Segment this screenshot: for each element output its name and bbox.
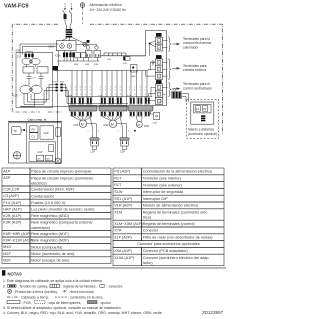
svg-text:M: M	[138, 123, 141, 127]
wire power line L	[64, 3, 66, 8]
legend row Z1F (A2P)	[113, 234, 142, 241]
fuse on L	[64, 14, 67, 19]
svg-text:entrada externa: entrada externa	[183, 68, 206, 72]
wires connector pair to right bus	[63, 85, 69, 97]
connectors M2F	[101, 98, 106, 104]
filter blocks	[27, 65, 36, 67]
svg-text:3: 3	[105, 90, 106, 92]
svg-text:K3R (A1P): K3R (A1P)	[3, 221, 22, 225]
svg-text:SS1: SS1	[107, 59, 112, 61]
relay supply wire	[76, 45, 97, 46]
bus to remote connector	[67, 96, 128, 105]
earth wire slant	[72, 38, 83, 43]
svg-text:Relé magnético (M2F): Relé magnético (M2F)	[31, 239, 69, 243]
svg-text:C1R,C2R: C1R,C2R	[3, 188, 20, 192]
svg-text:X1M~X3M (A1P): X1M~X3M (A1P)	[114, 222, 143, 226]
service pin	[152, 61, 154, 63]
svg-text:1: 1	[70, 87, 71, 89]
terminal L	[60, 44, 65, 49]
svg-text:PS: PS	[32, 129, 36, 132]
svg-text:2: 2	[75, 87, 76, 89]
svg-text:A2P: A2P	[44, 131, 49, 135]
svg-text:HAP: HAP	[131, 75, 136, 78]
svg-text:: opción: : opción	[99, 301, 111, 305]
svg-text:5: 5	[120, 94, 121, 96]
PCB A1P rail 1	[57, 60, 100, 62]
legend row SS1 (A1P)	[113, 195, 142, 202]
svg-text:S1W: S1W	[114, 190, 123, 194]
legend row A1P	[2, 168, 30, 175]
svg-text:1: 1	[88, 131, 89, 133]
svg-text:3: 3	[110, 87, 111, 89]
svg-text:1N~ 220-240 V 50/60 Hz: 1N~ 220-240 V 50/60 Hz	[90, 8, 127, 12]
cable bushing	[66, 26, 71, 29]
brace group 1	[168, 37, 171, 52]
connectors M1D	[130, 98, 135, 104]
wires X1M left down	[56, 44, 59, 66]
legend row M2F	[2, 257, 30, 264]
svg-text:Relé magnético (M1D): Relé magnético (M1D)	[31, 214, 70, 218]
svg-text:2: 2	[134, 87, 135, 89]
svg-text:Conector (suministro eléctrico: Conector (suministro eléctrico del adap-	[143, 256, 211, 260]
legend row K9R~K11R (A1P)	[2, 237, 30, 244]
svg-text:3: 3	[80, 94, 81, 96]
svg-text:(Accesorio opcional): (Accesorio opcional)	[188, 132, 217, 136]
svg-text:Condensador: Condensador	[31, 194, 55, 198]
svg-text:Relé magnético (M1F): Relé magnético (M1F)	[31, 232, 69, 236]
svg-text:eléctrico): eléctrico)	[31, 181, 47, 185]
legend row R2T	[113, 182, 142, 189]
terminal N	[67, 44, 72, 49]
svg-text:trico): trico)	[143, 216, 152, 220]
transformer ovals	[20, 85, 31, 94]
terminal strip X3M tag	[156, 55, 162, 59]
svg-text:2M: 2M	[37, 159, 40, 161]
svg-text:X7A: X7A	[98, 95, 102, 98]
svg-text:3: 3	[75, 90, 76, 92]
connector bar M1D	[128, 106, 153, 112]
svg-text:K2R (A1P): K2R (A1P)	[3, 214, 22, 218]
svg-text:Mando a distancia: Mando a distancia	[188, 128, 214, 132]
svg-text:: conector,: : conector,	[107, 285, 123, 289]
motor M1D bell wires	[137, 116, 143, 122]
unit border dash-dot right	[90, 24, 223, 135]
switch blade N	[69, 10, 71, 14]
PCB outline right section	[122, 31, 166, 106]
legend row K6R~K8R (A1P)	[2, 230, 30, 237]
wire drops M2F	[101, 71, 103, 98]
svg-text:: caja de interruptores,: : caja de interruptores,	[47, 301, 82, 305]
svg-text:4: 4	[140, 90, 141, 92]
svg-text:3: 3	[80, 87, 81, 89]
svg-text:Módulo de alimentación eléctri: Módulo de alimentación eléctrica	[143, 204, 199, 208]
terminal X4M-2	[155, 91, 162, 98]
svg-text:X9A: X9A	[60, 81, 64, 84]
svg-text:C3 (A2P): C3 (A2P)	[3, 194, 19, 198]
svg-text:4: 4	[115, 87, 116, 89]
brace group 3	[168, 83, 171, 97]
svg-text:K9R: K9R	[94, 64, 99, 66]
svg-text:X35A: X35A	[172, 89, 178, 92]
arrow 1	[172, 43, 177, 45]
svg-text:4: 4	[110, 90, 111, 92]
earth vertical wire	[57, 71, 59, 159]
HAP pilot lamp	[131, 65, 138, 73]
svg-text:2: 2	[129, 90, 130, 92]
svg-text:Alimentación eléctrica: Alimentación eléctrica	[90, 3, 122, 7]
svg-text:5: 5	[90, 87, 91, 89]
A2P wires from X1M	[20, 44, 128, 107]
svg-text:Caja comp. el.: Caja comp. el.	[28, 117, 48, 121]
svg-text:4: 4	[145, 94, 146, 96]
svg-text:M2F: M2F	[104, 124, 109, 127]
svg-text:Condensador (M1F, M2F): Condensador (M1F, M2F)	[31, 188, 75, 192]
svg-text:Placa de circuito impreso (pri: Placa de circuito impreso (principal)	[31, 170, 92, 174]
svg-text:calentador: calentador	[183, 46, 199, 50]
svg-text:R2T: R2T	[114, 183, 122, 187]
X2M junction	[149, 43, 151, 45]
svg-text:Regleta de terminales (suminis: Regleta de terminales (suministro eléc-	[143, 211, 210, 215]
legend row R1T	[113, 175, 142, 182]
svg-text:M: M	[111, 122, 114, 126]
terminal P2	[203, 106, 208, 112]
bus to terminals X4M	[66, 87, 156, 100]
legend row K2R (A1P)	[2, 212, 30, 219]
fuse F1U	[124, 57, 131, 61]
legend row C3 (A2P)	[2, 193, 30, 200]
svg-text:Placa de circuito impreso (sum: Placa de circuito impreso (suministro	[31, 176, 93, 180]
svg-text:V1R: V1R	[13, 95, 18, 98]
svg-text:M2F: M2F	[3, 258, 11, 262]
svg-text:tador): tador)	[143, 261, 154, 265]
svg-text:4. Colores: BLK: negro, RED: r: 4. Colores: BLK: negro, RED: rojo, BLU: …	[3, 311, 163, 315]
svg-text:V1R (A2P): V1R (A2P)	[114, 204, 133, 208]
connector Z1F top	[25, 54, 34, 58]
svg-text:2: 2	[70, 90, 71, 92]
terminal block X1M	[57, 41, 77, 51]
legend row A2P	[2, 175, 30, 186]
svg-text:Conector para accesorios opcio: Conector para accesorios opcionales	[137, 242, 200, 246]
svg-text:M1D: M1D	[144, 125, 149, 128]
svg-text:S1W: S1W	[153, 123, 157, 125]
svg-text:X15A (A1P): X15A (A1P)	[114, 256, 135, 260]
svg-text:5: 5	[115, 90, 116, 92]
svg-text:4: 4	[145, 87, 146, 89]
remote dashed enclosure	[187, 99, 219, 138]
svg-text:: PCB,: : PCB,	[22, 301, 32, 305]
legend row X1M	[113, 209, 142, 220]
inset X2M	[37, 155, 44, 161]
capacitors C3	[27, 73, 32, 82]
svg-text:3: 3	[98, 131, 99, 133]
svg-text:A2P: A2P	[3, 176, 11, 180]
svg-text:M1D: M1D	[3, 245, 11, 249]
svg-text:TR: TR	[14, 130, 18, 133]
wires to brace 3	[162, 87, 167, 94]
svg-text:R1T: R1T	[114, 176, 122, 180]
svg-text:1: 1	[118, 131, 119, 133]
connector bar M1F	[69, 106, 97, 112]
svg-text:A1P: A1P	[3, 170, 11, 174]
svg-text:M1F: M1F	[3, 252, 11, 256]
protective earth circle	[80, 3, 85, 8]
legend row X1M~X3M (A1P)	[113, 220, 142, 227]
svg-text:6: 6	[120, 90, 121, 92]
svg-text:F1U (A1P): F1U (A1P)	[3, 201, 22, 205]
svg-text:: tierra funcional,: : tierra funcional,	[69, 290, 95, 294]
legend row HAP (A1P)	[2, 206, 30, 213]
inset V1R	[12, 127, 22, 135]
terminal X2M-1	[155, 37, 162, 44]
legend row X9A (A1P)	[113, 247, 142, 254]
brace group 2	[168, 59, 171, 80]
wire drops M1D	[130, 71, 132, 98]
legend row V1R (A2P)	[113, 202, 142, 209]
note 2 line 4	[7, 301, 20, 304]
svg-text:2: 2	[100, 90, 101, 92]
svg-text:Motor (escape de aire): Motor (escape de aire)	[31, 259, 70, 263]
svg-text:Termistor (aire interior): Termistor (aire interior)	[143, 177, 182, 181]
magnetic relay K2R	[86, 46, 90, 50]
NOTAS header	[2, 270, 5, 275]
svg-text:5: 5	[85, 90, 86, 92]
svg-text:C3: C3	[33, 78, 37, 80]
svg-text:X15A: X15A	[55, 54, 61, 57]
terminal X3M-2	[155, 66, 162, 73]
svg-text:5: 5	[120, 87, 121, 89]
svg-text:3: 3	[110, 94, 111, 96]
earth screw terminal	[83, 42, 87, 46]
svg-text:C3: C3	[32, 136, 36, 139]
svg-text:Motor (suministro de aire): Motor (suministro de aire)	[31, 252, 75, 256]
svg-text:3: 3	[140, 94, 141, 96]
terminal X2M-2	[155, 44, 162, 51]
svg-text:K6R~K8R (A1P): K6R~K8R (A1P)	[3, 232, 31, 236]
svg-text:calentador): calentador)	[31, 226, 51, 230]
svg-text:M: M	[81, 122, 84, 126]
legend row HDR	[113, 241, 224, 248]
svg-text:HAP (A1P): HAP (A1P)	[3, 207, 22, 211]
note 2 line 3	[7, 296, 18, 298]
inset HAP	[49, 145, 54, 152]
connectors M1F	[71, 98, 76, 104]
inset X1M	[56, 128, 61, 136]
svg-text:Z1F (A2P): Z1F (A2P)	[114, 235, 132, 239]
svg-text:K6R: K6R	[74, 64, 79, 66]
svg-text:4: 4	[80, 90, 81, 92]
svg-text:: Protección a tierra (tornill: : Protección a tierra (tornillo),	[13, 290, 58, 294]
inset A2P	[40, 126, 54, 139]
inset X3M	[46, 155, 53, 161]
svg-text:2D123957: 2D123957	[202, 310, 224, 315]
legend row M1D	[2, 244, 30, 251]
connector bar M2F	[99, 106, 127, 112]
svg-text:Relé magnético (compuerta exte: Relé magnético (compuerta externa/	[31, 221, 93, 225]
svg-text:5: 5	[145, 90, 146, 92]
svg-text:VAM-FC9: VAM-FC9	[4, 4, 28, 10]
wires to brace 2	[162, 62, 167, 76]
svg-text:3. Si desea utilizar el adapta: 3. Si desea utilizar el adaptador opcion…	[3, 306, 121, 310]
PCB A2P box	[16, 53, 53, 108]
PCB A1P rail 2	[55, 70, 148, 72]
inset PS	[30, 126, 39, 132]
svg-text:Fusible (10 A 250 V): Fusible (10 A 250 V)	[31, 201, 66, 205]
noise filter ovals	[22, 58, 31, 65]
svg-text:: Tendido de cables,: : Tendido de cables,	[17, 285, 48, 289]
arrow 3	[172, 88, 177, 90]
svg-text:SS1 (A1P): SS1 (A1P)	[114, 197, 133, 201]
svg-text:P1: P1	[196, 107, 200, 111]
svg-text:C2R: C2R	[120, 150, 125, 153]
svg-text:X1M: X1M	[114, 210, 122, 214]
svg-text:X15A: X15A	[52, 81, 57, 84]
wire drops M1F	[71, 71, 73, 98]
motor M1F	[79, 120, 86, 127]
inset earth	[13, 152, 20, 159]
svg-text:1: 1	[129, 87, 130, 89]
svg-text:X9A (A1P): X9A (A1P)	[114, 249, 132, 253]
svg-text:Conmutación de la alimentación: Conmutación de la alimentación eléctrica	[143, 170, 213, 174]
connector to remote X?A	[173, 92, 181, 98]
terminal P1	[195, 106, 200, 112]
legend row S1W	[113, 188, 142, 195]
legend row C1R,C2R	[2, 186, 30, 193]
svg-text:1. Este diagrama de cableado s: 1. Este diagrama de cableado se aplica s…	[3, 279, 103, 283]
svg-text:PS (A2P): PS (A2P)	[114, 170, 131, 174]
svg-text:2: 2	[105, 87, 106, 89]
legend row PS (A2P)	[113, 168, 142, 175]
earth dash-dot drop	[82, 7, 84, 24]
svg-text:C1R: C1R	[90, 150, 95, 153]
terminal strip X2M tag	[156, 33, 162, 37]
svg-text:A1P: A1P	[38, 150, 43, 154]
motor M2F	[109, 120, 116, 127]
motor M2F bell wires	[102, 116, 122, 121]
svg-text:X5A: X5A	[127, 95, 131, 98]
svg-text:2: 2	[105, 94, 106, 96]
svg-text:3: 3	[140, 87, 141, 89]
svg-text:Termistor (aire exterior): Termistor (aire exterior)	[143, 183, 183, 187]
inset A1P	[29, 142, 56, 162]
legend row X?A	[113, 227, 142, 234]
X3M wires	[146, 62, 156, 76]
terminal X3M-1	[155, 59, 162, 66]
connector X15A	[63, 52, 75, 57]
svg-text:: regleta de terminales,: : regleta de terminales,	[61, 285, 97, 289]
arrow 2	[172, 67, 177, 69]
svg-text:2: 2	[135, 94, 136, 96]
svg-text:Z1F: Z1F	[17, 56, 22, 59]
svg-text:4: 4	[115, 94, 116, 96]
note 2 line 2	[7, 289, 11, 293]
terminal strip X4M tag	[156, 80, 162, 84]
svg-text:2: 2	[75, 94, 76, 96]
wire power line N	[71, 3, 73, 8]
svg-text:P2: P2	[203, 107, 207, 111]
svg-text:Interruptor DIP: Interruptor DIP	[143, 197, 168, 201]
wires to brace 1	[162, 41, 167, 48]
motor M1F bell wires	[72, 116, 92, 121]
svg-text:6: 6	[90, 90, 91, 92]
svg-text:Regleta de terminales (control: Regleta de terminales (control)	[143, 222, 196, 226]
svg-text:3: 3	[134, 90, 135, 92]
legend row X15A (A1P)	[113, 254, 142, 265]
svg-text:4: 4	[85, 94, 86, 96]
inset C3	[30, 133, 39, 139]
connector pair X9A/X15A mated	[56, 84, 59, 92]
svg-text:Filtro de ruido (con absorbedo: Filtro de ruido (con absorbedor de ondas…	[143, 236, 214, 240]
svg-text:M1F: M1F	[74, 124, 79, 127]
remote connector	[201, 115, 205, 121]
svg-text:control centralizado: control centralizado	[183, 86, 212, 90]
svg-text:Luz piloto (monitor de servici: Luz piloto (monitor de servicio: verde)	[31, 208, 95, 212]
remote controller unit	[191, 102, 214, 124]
svg-text:Conector: Conector	[143, 229, 159, 233]
legend row K3R (A1P)	[2, 219, 30, 230]
svg-text:: Cableado a tierra,: : Cableado a tierra,	[19, 295, 49, 299]
terminal X4M-3	[155, 98, 162, 105]
svg-text:5: 5	[90, 94, 91, 96]
legend row F1U (A1P)	[2, 199, 30, 206]
svg-text:K8R: K8R	[85, 64, 90, 66]
svg-text:Conector (PCB adaptador): Conector (PCB adaptador)	[143, 249, 189, 253]
svg-text:1: 1	[100, 87, 101, 89]
DIP switch SS1 row	[104, 53, 126, 56]
limit switch S1W	[154, 113, 160, 120]
transformer pin routing (nest)	[20, 85, 55, 107]
connectors below bar M2F	[101, 112, 106, 116]
connectors below bar M1F	[71, 112, 76, 116]
capacitor C1R	[87, 116, 97, 138]
magnetic relay K3R	[95, 46, 99, 50]
terminal X4M-1	[155, 84, 162, 91]
svg-text:: suministro en la obra,: : suministro en la obra,	[68, 295, 103, 299]
notes separator rule	[0, 267, 226, 270]
svg-text:K9R~K11R (A1P): K9R~K11R (A1P)	[3, 239, 33, 243]
capacitor C2R	[117, 116, 127, 138]
PCB A1P upper edge	[100, 55, 146, 57]
svg-text:3: 3	[128, 131, 129, 133]
svg-text:3M: 3M	[46, 159, 49, 161]
wires bushing to X1M	[62, 38, 70, 41]
unit border dash-dot left	[12, 24, 62, 112]
switch blade L	[63, 10, 65, 14]
svg-text:Interruptor de seguridad: Interruptor de seguridad	[143, 190, 184, 194]
svg-text:X?A: X?A	[114, 229, 122, 233]
svg-text:F1U: F1U	[123, 63, 128, 65]
terminal X3M-3	[155, 73, 162, 80]
connector boxes mid	[75, 53, 81, 58]
svg-text:2.: 2.	[3, 285, 6, 289]
elec box outline	[9, 123, 62, 163]
legend row M1F	[2, 250, 30, 257]
motor M1D damper	[136, 121, 142, 127]
extra M1D drop	[126, 71, 128, 106]
svg-text:Motor (compuerta): Motor (compuerta)	[31, 245, 63, 249]
svg-text:NOTAS: NOTAS	[8, 271, 23, 276]
connectors below bar M1D	[130, 112, 135, 116]
svg-text:4: 4	[85, 87, 86, 89]
